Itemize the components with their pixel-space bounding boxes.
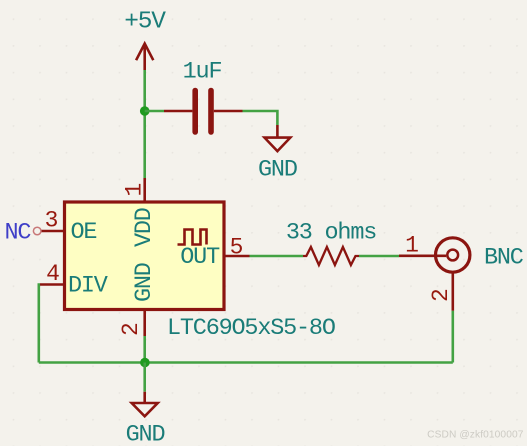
wire OUT pin to resistor bbox=[250, 255, 304, 258]
wire DIV to bottom rail bbox=[39, 285, 40, 363]
BNC pin 2 bbox=[428, 272, 454, 311]
wire junction to ground bbox=[143, 363, 146, 392]
svg-text:OE: OE bbox=[71, 219, 97, 246]
svg-text:33 ohms: 33 ohms bbox=[286, 220, 376, 247]
svg-text:3: 3 bbox=[45, 208, 58, 234]
wire capacitor to ground bbox=[243, 111, 278, 125]
wire bottom rail bbox=[39, 361, 453, 364]
wire resistor to BNC bbox=[359, 255, 399, 258]
svg-text:+5V: +5V bbox=[124, 8, 166, 35]
unconnected pin circle bbox=[33, 227, 41, 235]
ground (bottom) bbox=[126, 392, 165, 446]
IC LTC6905xS5-80 bbox=[65, 202, 335, 342]
svg-text:VDD: VDD bbox=[131, 208, 158, 247]
svg-text:GND: GND bbox=[131, 263, 158, 302]
svg-text:5: 5 bbox=[230, 235, 243, 261]
svg-text:CSDN @zkf0100007: CSDN @zkf0100007 bbox=[427, 430, 524, 441]
power +5V bbox=[124, 8, 166, 70]
svg-text:1: 1 bbox=[405, 233, 418, 259]
svg-text:1uF: 1uF bbox=[183, 59, 222, 86]
pin 2 GND (bottom) bbox=[118, 263, 158, 336]
wire junction to capacitor bbox=[145, 110, 164, 113]
svg-text:4: 4 bbox=[46, 261, 59, 287]
BNC pin 1 bbox=[399, 233, 446, 259]
pin 5 OUT (right) with clock waveform symbol bbox=[178, 230, 250, 272]
svg-text:GND: GND bbox=[258, 156, 297, 183]
pin 4 DIV (left) bbox=[40, 261, 108, 300]
pin 3 OE (left) bbox=[41, 208, 96, 247]
svg-text:GND: GND bbox=[126, 421, 165, 446]
wire +5V to junction and down to pin 1 bbox=[143, 70, 146, 178]
junction node at bottom rail bbox=[140, 358, 150, 368]
svg-text:LTC69O5xS5-8O: LTC69O5xS5-8O bbox=[167, 315, 335, 342]
svg-text:DIV: DIV bbox=[68, 273, 108, 300]
svg-text:2: 2 bbox=[428, 289, 454, 302]
resistor 33 ohms bbox=[286, 220, 376, 266]
BNC connector bbox=[436, 238, 524, 272]
capacitor 1uF bbox=[164, 59, 243, 133]
wire IC GND pin to junction bbox=[143, 336, 146, 363]
junction node at +5V/capacitor bbox=[140, 106, 150, 116]
svg-text:OUT: OUT bbox=[180, 244, 220, 271]
wire BNC to bottom rail bbox=[451, 311, 454, 363]
svg-text:2: 2 bbox=[118, 323, 144, 336]
svg-text:BNC: BNC bbox=[484, 245, 524, 272]
ground (top right) bbox=[258, 125, 297, 183]
svg-text:NC: NC bbox=[5, 220, 32, 247]
pin 1 VDD (top) bbox=[122, 178, 159, 247]
svg-text:1: 1 bbox=[122, 184, 148, 197]
